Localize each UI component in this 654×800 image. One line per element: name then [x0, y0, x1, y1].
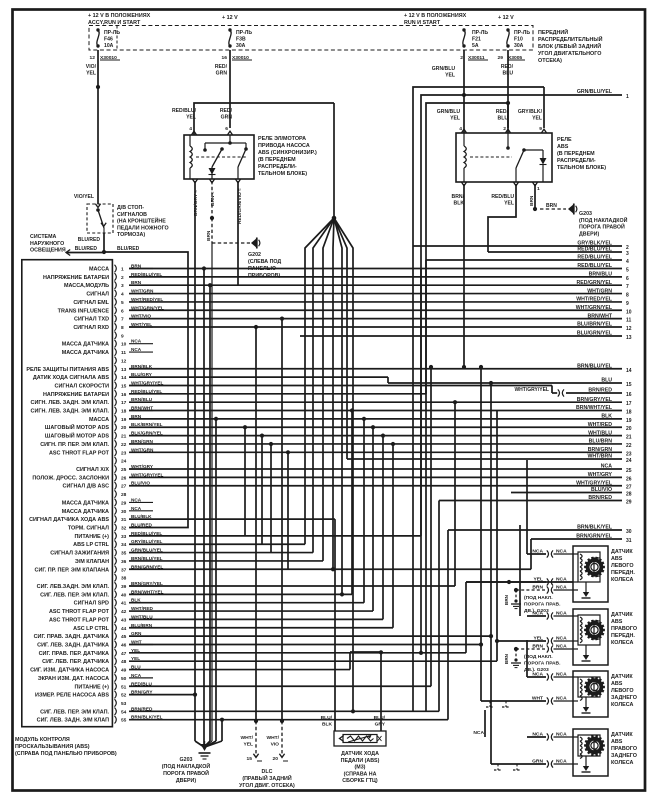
svg-text:RED/BLU/YEL: RED/BLU/YEL: [577, 263, 612, 269]
svg-text:33: 33: [121, 534, 127, 540]
relay K2 top arrows: [461, 129, 466, 133]
svg-text:BLU/VIO: BLU/VIO: [591, 487, 612, 493]
svg-text:31: 31: [626, 538, 632, 544]
svg-text:РЕЛЕ ЗАЩИТЫ ПИТАНИЯ ABS: РЕЛЕ ЗАЩИТЫ ПИТАНИЯ ABS: [26, 367, 109, 373]
svg-text:41: 41: [121, 601, 127, 607]
relay K1 dashed link: [196, 156, 247, 158]
svg-text:BRN ≈: BRN ≈: [210, 191, 216, 206]
pedal travel sensor box: [334, 731, 386, 746]
svg-text:НАПРЯЖЕНИЕ БАТАРЕИ: НАПРЯЖЕНИЕ БАТАРЕИ: [43, 275, 109, 281]
svg-text:5А: 5А: [472, 43, 479, 49]
svg-text:ASC LP CTRL: ASC LP CTRL: [73, 626, 110, 632]
node fuse F46 branch: [96, 85, 100, 89]
node sensor 1 YEL: [507, 580, 511, 584]
svg-text:F3B: F3B: [236, 37, 246, 43]
svg-text:МАССА ДАТЧИКА: МАССА ДАТЧИКА: [62, 350, 109, 356]
svg-text:ПР-ЛЬ: ПР-ЛЬ: [236, 30, 252, 36]
svg-text:18: 18: [626, 410, 632, 416]
svg-text:RED/BLU: RED/BLU: [491, 194, 514, 200]
wire 27 WHT/GRY/YEL to edge: [129, 485, 622, 487]
sensor 2 wire NCA top: [527, 615, 546, 617]
svg-text:25: 25: [121, 467, 127, 473]
wire BRN/BLK down: [463, 184, 465, 367]
svg-text:BRN: BRN: [532, 585, 543, 591]
G203 bundle converge: [195, 741, 204, 747]
svg-text:16: 16: [121, 392, 127, 398]
wire 8 WHT/GRN to edge: [129, 293, 622, 295]
svg-text:ТОРМОЗА): ТОРМОЗА): [117, 232, 145, 238]
ground G202 symbol: [251, 239, 256, 247]
svg-text:2: 2: [503, 126, 506, 132]
sensor 4 NCA feed: [484, 710, 486, 737]
svg-text:GRN: GRN: [221, 115, 233, 121]
svg-text:GRN: GRN: [532, 759, 543, 765]
svg-text:GRN/BLU: GRN/BLU: [437, 109, 461, 115]
sensor 3 NCA feed: [526, 640, 528, 677]
svg-text:22: 22: [626, 443, 632, 449]
svg-text:14: 14: [121, 375, 127, 381]
svg-text:СИСТЕМА: СИСТЕМА: [30, 234, 57, 240]
svg-text:ЭКРАН ИЗМ. ДАТ. НАСОСА: ЭКРАН ИЗМ. ДАТ. НАСОСА: [38, 676, 109, 682]
svg-text:ABS: ABS: [611, 619, 623, 625]
svg-text:26: 26: [626, 476, 632, 482]
svg-text:46: 46: [121, 642, 127, 648]
svg-text:11: 11: [121, 350, 126, 356]
wire 20 WHT/RED to edge: [129, 426, 622, 428]
svg-text:СИГНАЛ СКОРОСТИ: СИГНАЛ СКОРОСТИ: [55, 383, 110, 389]
svg-text:BRN/GRY ≈: BRN/GRY ≈: [193, 190, 199, 216]
relay K1 contact 1: [220, 147, 224, 151]
svg-text:ПЕДАЛИ НОЖНОГО: ПЕДАЛИ НОЖНОГО: [117, 225, 169, 231]
wire fuse F21 down: [463, 50, 465, 128]
svg-text:4: 4: [121, 292, 124, 298]
svg-text:BRN/GRN/YEL: BRN/GRN/YEL: [576, 534, 613, 540]
svg-text:BLU/GRN/YEL: BLU/GRN/YEL: [577, 331, 613, 337]
svg-text:12: 12: [626, 326, 632, 332]
svg-text:RED/: RED/: [496, 109, 509, 115]
svg-text:TRANS INFLUENCE: TRANS INFLUENCE: [58, 308, 110, 314]
svg-text:КОЛЕСА: КОЛЕСА: [611, 577, 633, 583]
svg-text:YEL: YEL: [504, 201, 514, 207]
svg-text:ПОРОГА ПРАВ.: ПОРОГА ПРАВ.: [524, 660, 561, 666]
svg-text:BLU/RED: BLU/RED: [131, 523, 152, 528]
svg-text:28: 28: [626, 492, 632, 498]
sensor 1 YEL wire: [466, 581, 573, 583]
svg-text:NCA: NCA: [532, 549, 543, 555]
wire fuse F10 down: [507, 50, 509, 128]
wire 24 WHT/BRN to edge: [347, 458, 622, 460]
svg-text:МАССА,МОДУЛЬ: МАССА,МОДУЛЬ: [64, 283, 109, 289]
module pin 28: [115, 490, 117, 498]
svg-text:YEL: YEL: [450, 116, 460, 122]
svg-text:12: 12: [121, 358, 127, 364]
wheel sensor 3 box: [573, 671, 608, 717]
svg-text:RED/: RED/: [215, 64, 228, 70]
wire branch x262: [260, 434, 264, 438]
svg-text:12: 12: [90, 55, 96, 61]
svg-text:СБОРКЕ ГТЦ): СБОРКЕ ГТЦ): [342, 778, 378, 784]
fuse F21: [462, 28, 465, 31]
svg-text:ЗАДНЕГО: ЗАДНЕГО: [611, 695, 637, 701]
relay K1 contact 2: [245, 143, 247, 149]
svg-text:ТЕЛЬНОМ БЛОКЕ): ТЕЛЬНОМ БЛОКЕ): [557, 165, 606, 171]
relay K2 diode: [540, 158, 547, 165]
sensor 2 NCA feed: [519, 525, 521, 616]
wire branch x271: [269, 442, 273, 446]
svg-text:ШАГОВЫЙ МОТОР ADS: ШАГОВЫЙ МОТОР ADS: [45, 423, 109, 431]
svg-text:РАСПРЕДЕЛИ-: РАСПРЕДЕЛИ-: [258, 164, 297, 170]
svg-text:20: 20: [626, 426, 632, 432]
wire 11 BRN/WHT to edge: [129, 318, 622, 320]
svg-text:NCA: NCA: [601, 464, 612, 470]
svg-text:6: 6: [626, 276, 629, 282]
svg-text:BLK: BLK: [322, 721, 333, 727]
sensor 1 wire NCA top: [527, 553, 546, 555]
svg-text:ДАТЧИК: ДАТЧИК: [611, 674, 633, 680]
svg-text:4: 4: [626, 259, 629, 265]
svg-text:17: 17: [626, 401, 632, 407]
svg-text:ПРАВОГО: ПРАВОГО: [611, 746, 637, 752]
svg-text:8: 8: [626, 293, 629, 299]
relay K2 contact link: [524, 149, 543, 151]
wire fuse F21 relay link: [463, 128, 465, 133]
svg-text:NCA: NCA: [473, 730, 484, 736]
wire BRN/GRY down to G203 bundle: [194, 181, 196, 741]
svg-text:ПРАВОГО: ПРАВОГО: [611, 626, 637, 632]
wire 12 BLU/BRN/YEL to edge: [129, 326, 622, 328]
svg-text:NCA: NCA: [131, 497, 142, 502]
wire 4 RED/BLU/YEL to edge: [426, 259, 622, 261]
wire 9 WHT/RED/YEL to edge: [129, 301, 622, 303]
sensor 2 ground G203 stub: [515, 649, 517, 658]
relay K1 pin6 internal: [229, 135, 231, 143]
svg-text:NCA: NCA: [131, 506, 142, 511]
svg-text:53: 53: [121, 701, 127, 707]
wheel sensor 1 box: [573, 546, 608, 602]
wire vertical x431: [430, 367, 432, 686]
svg-text:WHT/GRN/YEL: WHT/GRN/YEL: [576, 305, 613, 311]
svg-text:ABS (СИНХРОНИЗИР.): ABS (СИНХРОНИЗИР.): [258, 150, 317, 156]
stop lamp switch box: [87, 204, 113, 233]
svg-text:15: 15: [121, 383, 127, 389]
svg-text:СИГНАЛ ЗАЖИГАНИЯ: СИГНАЛ ЗАЖИГАНИЯ: [50, 551, 109, 557]
svg-text:ШАГОВЫЙ МОТОР ADS: ШАГОВЫЙ МОТОР ADS: [45, 432, 109, 440]
module pin 9: [115, 332, 117, 340]
node fan junction: [332, 216, 337, 221]
svg-text:NCA: NCA: [532, 611, 543, 617]
exterior lighting arrow: [66, 250, 70, 256]
wire pin 16 jog: [129, 393, 426, 395]
wire 23 BRN/GRN to edge: [129, 451, 622, 453]
svg-text:СИГН. ПР. ПЕР. Э/М КЛАП.: СИГН. ПР. ПЕР. Э/М КЛАП.: [40, 442, 109, 448]
wire junction to stop switch: [97, 87, 99, 204]
wire 3 RED/BLU/YEL to edge: [488, 251, 622, 253]
wire pin 49 to pedal sensor: [129, 669, 350, 671]
svg-text:СИГ. ИЗМ. ДАТЧИКА НАСОСА: СИГ. ИЗМ. ДАТЧИКА НАСОСА: [30, 668, 109, 674]
svg-text:39: 39: [121, 584, 127, 590]
svg-text:ТОРМ. СИГНАЛ: ТОРМ. СИГНАЛ: [68, 526, 109, 532]
svg-text:СИГ. ПРАВ. ЗАДН. ДАТЧИКА: СИГ. ПРАВ. ЗАДН. ДАТЧИКА: [34, 634, 109, 640]
svg-text:ЛЕВОГО: ЛЕВОГО: [611, 688, 634, 694]
svg-text:BRN: BRN: [504, 653, 509, 664]
svg-text:СИГНАЛ ДАТЧИКА ХОДА ABS: СИГНАЛ ДАТЧИКА ХОДА ABS: [29, 517, 109, 523]
svg-text:СИГ. ЛЕВ. ЗАДН. ДАТЧИКА: СИГ. ЛЕВ. ЗАДН. ДАТЧИКА: [37, 642, 109, 648]
svg-text:WHT/: WHT/: [241, 735, 254, 741]
wire pin 48 to sensor 2: [129, 660, 497, 662]
svg-text:BRN: BRN: [529, 195, 535, 206]
svg-text:(В ПЕРЕДНЕМ: (В ПЕРЕДНЕМ: [557, 151, 595, 157]
svg-text:РЕЛЕ: РЕЛЕ: [557, 137, 572, 143]
wire pin 8 DLC branch: [254, 325, 258, 329]
sensor 1 tone wheel: [588, 560, 602, 574]
svg-text:NCA: NCA: [131, 673, 142, 678]
sensor 3 coil: [580, 679, 582, 683]
wire switch out: [103, 233, 105, 252]
svg-text:50: 50: [121, 676, 127, 682]
svg-text:BRN/RED: BRN/RED: [588, 495, 612, 501]
fuse box divider: [116, 26, 118, 51]
svg-text:19: 19: [121, 417, 127, 423]
svg-text:УГОЛ ДВИГАТЕЛЬНОГО: УГОЛ ДВИГАТЕЛЬНОГО: [538, 51, 601, 57]
svg-text:ТЕЛЬНОМ БЛОКЕ): ТЕЛЬНОМ БЛОКЕ): [258, 171, 307, 177]
svg-text:(СПРАВА ПОД ПАНЕЛЬЮ ПРИБОРОВ): (СПРАВА ПОД ПАНЕЛЬЮ ПРИБОРОВ): [15, 751, 117, 757]
wire pin 43 jog: [129, 618, 383, 620]
svg-text:13: 13: [121, 367, 127, 373]
svg-text:54: 54: [121, 709, 127, 715]
svg-text:КОЛЕСА: КОЛЕСА: [611, 640, 633, 646]
wire G203 member x222: [220, 718, 224, 722]
svg-text:BRN/WHT: BRN/WHT: [588, 313, 613, 319]
svg-text:27: 27: [626, 485, 632, 491]
relay K1 box: [184, 135, 254, 179]
relay K2 coil: [464, 146, 466, 168]
wire fuse F10 relay link: [507, 103, 509, 133]
svg-text:7: 7: [626, 284, 629, 290]
sensor 2 wire BRN dashed: [514, 647, 518, 651]
svg-text:9: 9: [121, 333, 124, 339]
wire RED/GRN/VIO down: [237, 181, 239, 285]
svg-text:15: 15: [626, 382, 632, 388]
sensor 1 wire BRN dashed: [514, 588, 518, 592]
svg-text:20: 20: [121, 425, 127, 431]
svg-text:7: 7: [121, 317, 124, 323]
svg-text:YEL: YEL: [243, 741, 253, 747]
svg-text:35: 35: [121, 551, 127, 557]
svg-text:ABS: ABS: [557, 144, 569, 150]
wire 30 BRN/BLK/YEL to edge: [448, 529, 622, 531]
svg-text:(ПОД НАКЛАДКОЙ: (ПОД НАКЛАДКОЙ: [162, 762, 211, 770]
svg-text:СИГНАЛ EML: СИГНАЛ EML: [73, 300, 109, 306]
svg-text:МАССА ДАТЧИКА: МАССА ДАТЧИКА: [62, 500, 109, 506]
svg-text:18: 18: [121, 409, 127, 415]
svg-text:Д/В СТОП-: Д/В СТОП-: [117, 205, 144, 211]
wire pin 40 jog: [129, 593, 352, 595]
svg-text:РАСПРЕДЕЛИ-: РАСПРЕДЕЛИ-: [557, 158, 596, 164]
wire fuse F3B to relay: [229, 50, 231, 128]
wire BRN dashed to G203 right: [540, 208, 566, 210]
svg-text:ИЗМЕР. РЕЛЕ НАСОСА ABS: ИЗМЕР. РЕЛЕ НАСОСА ABS: [35, 693, 109, 699]
wire branch x288: [286, 450, 290, 454]
svg-text:23: 23: [626, 451, 632, 457]
svg-text:СИГН. ЛЕВ. ЗАДН. Э/М КЛАП.: СИГН. ЛЕВ. ЗАДН. Э/М КЛАП.: [31, 409, 110, 415]
svg-text:BLU/RED: BLU/RED: [75, 246, 98, 252]
wire pin 44 jog: [129, 627, 393, 629]
svg-text:F46: F46: [104, 37, 113, 43]
svg-text:G203: G203: [180, 757, 193, 763]
svg-text:20: 20: [273, 756, 279, 762]
wire 16 inline connector: [558, 389, 560, 396]
wire 2 GRY/BLK/YEL to edge: [413, 245, 622, 247]
svg-text:BRN/BLU: BRN/BLU: [589, 272, 613, 278]
relay K1 diode: [209, 168, 216, 175]
svg-text:ДАТЧИК ХОДА: ДАТЧИК ХОДА: [341, 751, 379, 757]
wire pin 35 to fan: [129, 552, 313, 554]
svg-text:ПРИБОРОВ): ПРИБОРОВ): [248, 273, 280, 279]
svg-text:27: 27: [121, 484, 127, 490]
svg-text:ABS LP CTRL: ABS LP CTRL: [73, 542, 110, 548]
wire pin 54 jog: [129, 710, 439, 712]
wire G203 member from G202 junction: [211, 243, 213, 741]
wire pin 46 to sensor 3: [129, 643, 481, 645]
svg-text:УГОЛ ДВИГ. ОТСЕКА): УГОЛ ДВИГ. ОТСЕКА): [239, 783, 295, 789]
svg-text:СИГН. ЛЕВ. ЗАДН. Э/М КЛАП.: СИГН. ЛЕВ. ЗАДН. Э/М КЛАП.: [31, 400, 110, 406]
sensor 2 inner bracket: [578, 615, 600, 645]
relay K2 dashed link: [470, 156, 512, 158]
svg-text:26: 26: [121, 475, 127, 481]
wire pin 37 jog: [129, 568, 531, 570]
svg-text:GRY: GRY: [375, 721, 386, 727]
svg-text:ПИТАНИЕ (+): ПИТАНИЕ (+): [75, 534, 110, 540]
svg-text:СИГ. ПР. ПЕР. Э/М КЛАПАНА: СИГ. ПР. ПЕР. Э/М КЛАПАНА: [35, 567, 110, 573]
svg-text:СИГНАЛ SPD: СИГНАЛ SPD: [74, 601, 109, 607]
svg-text:+ 12 V В ПОЛОЖЕНИЯХ: + 12 V В ПОЛОЖЕНИЯХ: [404, 13, 467, 19]
svg-text:СИГ. ЛЕВ. ПЕР. ДАТЧИКА: СИГ. ЛЕВ. ПЕР. ДАТЧИКА: [42, 659, 109, 665]
svg-text:VIO: VIO: [271, 741, 280, 747]
svg-text:МАССА: МАССА: [89, 417, 109, 423]
svg-text:МАССА: МАССА: [89, 267, 109, 273]
wire pin 14 jog: [129, 376, 388, 378]
svg-text:BLU/: BLU/: [374, 715, 386, 721]
svg-text:4: 4: [189, 126, 192, 132]
svg-text:GRN/BLU: GRN/BLU: [432, 66, 456, 72]
svg-text:СИГНАЛ Д/В ASC: СИГНАЛ Д/В ASC: [63, 484, 110, 490]
wire BRN dashed to G202: [211, 181, 213, 218]
wire 14 BRN/BLU/YEL to edge: [129, 368, 622, 370]
svg-text:49: 49: [121, 668, 127, 674]
wire pin 51 stub: [129, 685, 431, 687]
svg-text:21: 21: [121, 434, 127, 440]
svg-text:ПОРОГА ПРАВОЙ: ПОРОГА ПРАВОЙ: [579, 223, 625, 231]
sensor 3 ground: [583, 707, 589, 712]
svg-text:30А: 30А: [514, 43, 524, 49]
wire pin 34 to fan: [129, 543, 305, 545]
wire GRY/BLK/YEL to relay pin 9: [543, 87, 545, 128]
svg-text:F10: F10: [514, 37, 523, 43]
fuse F3B: [228, 28, 231, 31]
svg-text:WHT/RED: WHT/RED: [588, 422, 612, 428]
wire 17 BRN/GRY/YEL to edge: [129, 401, 622, 403]
svg-text:48: 48: [121, 659, 127, 665]
svg-text:BRN/BLK/YEL: BRN/BLK/YEL: [577, 525, 613, 531]
wire 6 BRN/BLU to edge: [129, 276, 622, 278]
svg-text:55: 55: [121, 718, 127, 724]
sensor 2 wire YEL: [497, 640, 546, 642]
svg-text:4: 4: [459, 126, 462, 132]
wheel sensor 4 box: [573, 729, 608, 776]
svg-text:16: 16: [626, 392, 632, 398]
svg-text:3: 3: [121, 283, 124, 289]
sensor 4 wire GRN: [491, 763, 546, 765]
svg-text:9: 9: [626, 301, 629, 307]
svg-text:14: 14: [626, 368, 632, 374]
svg-text:ПР-ЛЬ: ПР-ЛЬ: [104, 30, 120, 36]
sensor 4 tone wheel: [588, 739, 602, 753]
wire pin 7 DLC branch: [280, 317, 284, 321]
svg-text:5: 5: [121, 300, 124, 306]
svg-text:11: 11: [626, 318, 632, 324]
svg-text:ДАТИК ХОДА СИГНАЛА ABS: ДАТИК ХОДА СИГНАЛА ABS: [33, 375, 109, 381]
svg-text:BRN/BLU/YEL: BRN/BLU/YEL: [577, 363, 613, 369]
wire 18 BRN/WHT/YEL to edge: [129, 410, 622, 412]
sensor 2 coil: [580, 617, 582, 621]
svg-text:ПОРОГА ПРАВ.: ПОРОГА ПРАВ.: [524, 601, 561, 607]
sensor 1 NCA feed: [526, 460, 528, 554]
sensor 1 ground: [583, 592, 589, 597]
svg-text:BRN/WHT/YEL: BRN/WHT/YEL: [576, 405, 613, 411]
svg-text:NCA: NCA: [131, 339, 142, 344]
svg-text:BRN/RED: BRN/RED: [588, 388, 612, 394]
svg-text:F21: F21: [472, 37, 481, 43]
svg-text:ПИТАНИЕ (+): ПИТАНИЕ (+): [75, 684, 110, 690]
svg-text:(ПОД НАКЛАДКОЙ: (ПОД НАКЛАДКОЙ: [579, 216, 628, 224]
svg-text:WHT/BRN: WHT/BRN: [588, 454, 613, 460]
sensor 2 ground: [583, 655, 589, 660]
svg-text:ABS: ABS: [611, 739, 623, 745]
svg-text:RED/BLU/: RED/BLU/: [172, 108, 197, 114]
svg-text:30А: 30А: [236, 43, 246, 49]
svg-text:BRN: BRN: [532, 644, 543, 650]
svg-text:YEL: YEL: [445, 73, 455, 79]
svg-text:24: 24: [121, 459, 127, 465]
fuse F46: [96, 28, 99, 31]
wire 19 BLK to edge: [129, 418, 622, 420]
svg-text:42: 42: [121, 609, 127, 615]
wire stop signal to module pin 32: [104, 252, 188, 528]
svg-text:23: 23: [121, 450, 127, 456]
svg-text:25: 25: [626, 468, 632, 474]
svg-text:НАРУЖНОГО: НАРУЖНОГО: [30, 241, 64, 247]
pedal sensor resistor: [343, 735, 377, 743]
svg-text:40: 40: [121, 592, 127, 598]
svg-text:BLU/BRN: BLU/BRN: [589, 439, 613, 445]
sensor 3 wire WHT: [481, 700, 546, 702]
module pin 38: [115, 574, 117, 582]
svg-text:2: 2: [121, 275, 124, 281]
svg-text:СИГНАЛ: СИГНАЛ: [86, 292, 109, 298]
svg-text:(ПОД НАКЛ.: (ПОД НАКЛ.: [524, 595, 553, 601]
node fuse F21 branch: [462, 93, 466, 97]
svg-text:34: 34: [121, 542, 127, 548]
svg-text:ЛЕВОГО: ЛЕВОГО: [611, 563, 634, 569]
svg-text:YEL: YEL: [86, 71, 96, 77]
svg-text:(ПРАВЫЙ ЗАДНИЙ: (ПРАВЫЙ ЗАДНИЙ: [242, 774, 291, 782]
sensor 3 stubs: [486, 706, 494, 708]
svg-text:15: 15: [247, 756, 253, 762]
svg-text:GRN: GRN: [216, 71, 228, 77]
svg-text:WHT/RED/YEL: WHT/RED/YEL: [576, 297, 613, 303]
svg-text:16: 16: [222, 55, 228, 61]
wire branch x245: [243, 425, 247, 429]
